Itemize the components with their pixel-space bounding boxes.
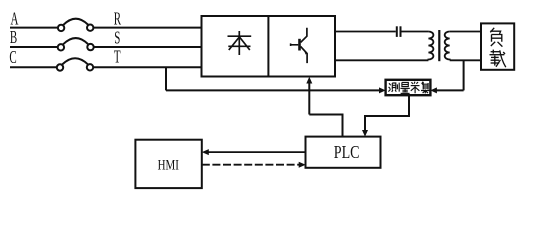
svg-text:R: R <box>114 10 121 29</box>
svg-text:S: S <box>114 29 120 48</box>
svg-text:HMI: HMI <box>158 156 179 173</box>
svg-text:A: A <box>11 10 19 29</box>
svg-text:B: B <box>10 28 17 47</box>
svg-text:T: T <box>114 48 121 67</box>
svg-text:C: C <box>9 48 16 67</box>
svg-text:PLC: PLC <box>334 144 360 163</box>
